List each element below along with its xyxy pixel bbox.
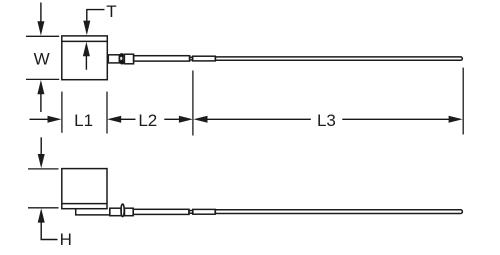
W top arrow [37, 3, 44, 36]
sleeve (top view) [193, 56, 216, 61]
cable (top view) [215, 57, 462, 60]
svg-text:T: T [106, 2, 116, 21]
L1 left arrow [30, 116, 62, 123]
sleeve (side view) [193, 209, 215, 214]
svg-text:L3: L3 [317, 111, 336, 130]
probe tube (side view) [133, 209, 189, 214]
L1 extension line right [106, 92, 108, 134]
L2 left arrow [107, 116, 135, 123]
tag body (top view) [62, 36, 108, 80]
L3 right arrow [342, 116, 462, 123]
seal clamp (top view) [120, 53, 125, 64]
L3 left arrow [194, 116, 311, 123]
L3 extension line right [462, 68, 464, 135]
T leader line [83, 10, 104, 36]
tag base inner line (side view) [62, 203, 107, 205]
cable (side view) [215, 210, 462, 214]
ferrule F1 (top view) [108, 55, 119, 63]
svg-text:L2: L2 [138, 111, 157, 130]
L2/L3 extension line [192, 71, 194, 136]
seal clamp (side view) [121, 204, 124, 217]
tag body (side view) [62, 169, 107, 209]
probe tube (top view) [134, 56, 190, 61]
svg-text:L1: L1 [74, 111, 93, 130]
ferrule F1 (side view) [110, 208, 121, 216]
T inner arrow [83, 42, 90, 70]
L2 right arrow [164, 116, 193, 123]
W bottom arrow [37, 80, 44, 112]
neck (top view) [190, 57, 193, 60]
tray (side view) [76, 209, 110, 215]
neck (side view) [189, 211, 193, 214]
svg-text:W: W [34, 49, 50, 68]
svg-text:H: H [60, 230, 72, 249]
H bottom arrow with leader [38, 208, 58, 239]
ferrule F2 (side view) [125, 208, 134, 216]
H extension lines [28, 169, 59, 208]
L1 extension line left [61, 92, 63, 133]
W dimension extension lines [26, 36, 59, 79]
H top arrow [38, 137, 45, 168]
ferrule F2 (top view) [124, 54, 133, 64]
tag top strip line (thickness T) [62, 40, 108, 42]
